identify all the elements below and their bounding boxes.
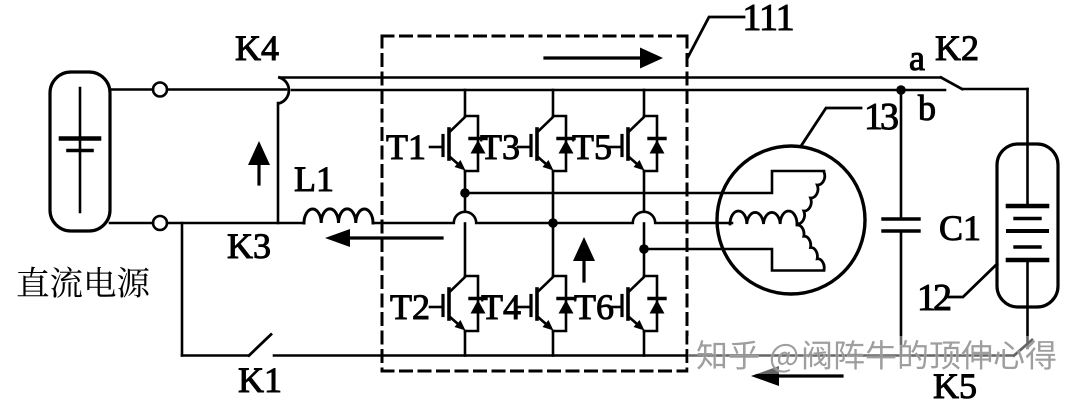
- wire battery+ to terminal: [110, 88, 153, 91]
- motor winding phase-C coil: [797, 225, 824, 270]
- wire terminal to node K3 / inductor L1: [167, 222, 304, 225]
- current direction arrow up (K3 branch): [248, 141, 270, 184]
- svg-text:T5: T5: [572, 127, 612, 167]
- wire T1/T2 leg below hop: [464, 224, 467, 277]
- current direction arrow left (bottom rail): [751, 366, 842, 386]
- svg-text:T3: T3: [480, 127, 520, 167]
- freewheeling diode of T4: [558, 299, 574, 314]
- switch K1 blade: [249, 335, 271, 356]
- current direction arrow left (under L1): [325, 229, 442, 247]
- storage battery 12 outline: [997, 144, 1058, 307]
- svg-text:13: 13: [864, 96, 898, 138]
- svg-text:12: 12: [917, 277, 950, 319]
- pointer line to label 111: [688, 17, 744, 57]
- negative terminal circle: [153, 216, 167, 230]
- wire T6 emitter leg to bottom rail: [643, 331, 646, 356]
- wire T4 emitter leg to bottom rail: [552, 331, 555, 356]
- switch K2 blade: [941, 78, 962, 90]
- wire battery- to terminal: [110, 222, 153, 225]
- DC source internal cell symbol: [61, 88, 99, 212]
- current direction arrow right (top of box): [545, 48, 663, 69]
- pointer line to label 12: [949, 264, 997, 297]
- wire phase-A to motor: [465, 171, 824, 193]
- svg-text:C1: C1: [939, 208, 981, 248]
- svg-text:K1: K1: [238, 360, 282, 400]
- transistor T6: [609, 276, 657, 331]
- motor winding phase-A coil: [797, 172, 825, 224]
- node b junction dot: [896, 85, 906, 95]
- wire T3/T4 leg: [552, 171, 555, 276]
- node phase-A junction dot: [460, 188, 470, 198]
- transistor T4: [518, 276, 566, 331]
- DC source (battery) outline: [50, 72, 110, 231]
- svg-text:T2: T2: [390, 287, 430, 327]
- freewheeling diode of T5: [649, 139, 665, 154]
- svg-text:L1: L1: [294, 159, 334, 199]
- switch K4 arc contact: [279, 78, 289, 104]
- switch K5 blade: [1014, 340, 1032, 356]
- pointer line to label 13: [801, 108, 861, 146]
- wire T5/T6 leg below hop: [643, 224, 646, 277]
- svg-text:T1: T1: [386, 127, 426, 167]
- node phase-B junction dot: [548, 218, 558, 228]
- filter capacitor branch upper wire: [900, 90, 903, 219]
- filter capacitor plates: [883, 219, 919, 231]
- svg-text:T4: T4: [481, 287, 521, 327]
- wire K3 vertical branch: [277, 103, 280, 223]
- svg-text:K3: K3: [227, 226, 271, 266]
- svg-text:T6: T6: [574, 287, 614, 327]
- motor 13 stator circle: [717, 146, 865, 294]
- svg-text:111: 111: [742, 0, 793, 39]
- watermark 知乎 @...: [688, 336, 1060, 374]
- inverter block 111 dashed boundary: [382, 36, 687, 371]
- svg-text:K4: K4: [235, 28, 279, 68]
- wire top bus a-line: [280, 76, 942, 79]
- wire terminal to switch K4: [167, 88, 286, 91]
- wire C1 bottom to K5: [1026, 260, 1029, 348]
- transistor T1: [430, 116, 478, 171]
- wire bottom rail left of K1: [182, 354, 248, 357]
- svg-text:a: a: [909, 38, 925, 78]
- freewheeling diode of T3: [558, 139, 574, 154]
- current direction arrow up (between T4 and T6): [573, 237, 595, 281]
- wire phase-B line with hops over T1 and T5 legs: [373, 212, 732, 223]
- wire K2 to C1 branch: [963, 88, 1028, 91]
- label 直流电源 (DC power source): [18, 267, 149, 298]
- motor winding phase-B coil: [730, 211, 797, 224]
- wire battery- drop to bottom rail: [181, 223, 184, 356]
- wire C1 branch top vertical: [1026, 89, 1029, 206]
- transistor T5: [609, 116, 657, 171]
- node phase-C junction dot: [639, 244, 649, 254]
- wire phase-C to motor: [644, 249, 824, 271]
- freewheeling diode of T2: [470, 299, 486, 314]
- freewheeling diode of T1: [470, 139, 486, 154]
- inductor L1: [304, 209, 373, 223]
- transistor T3: [518, 116, 566, 171]
- freewheeling diode of T6: [649, 299, 665, 314]
- wire DC+ bus b-line: [292, 89, 945, 92]
- storage battery cell plates: [1008, 206, 1047, 260]
- wire T2 emitter leg to bottom rail: [464, 331, 467, 356]
- wire T1 emitter leg to phase-A node: [464, 171, 467, 211]
- svg-text:b: b: [918, 88, 936, 128]
- wire T5 collector leg: [643, 90, 646, 116]
- svg-text:K2: K2: [935, 28, 979, 68]
- filter capacitor branch lower wire: [900, 231, 903, 356]
- wire T5 emitter leg: [643, 171, 646, 211]
- wire T1 collector leg: [464, 90, 467, 116]
- wire bottom rail K1 to K5: [274, 354, 1013, 357]
- transistor T2: [430, 276, 478, 331]
- wire T3 collector leg: [552, 90, 555, 116]
- positive terminal circle: [153, 83, 167, 97]
